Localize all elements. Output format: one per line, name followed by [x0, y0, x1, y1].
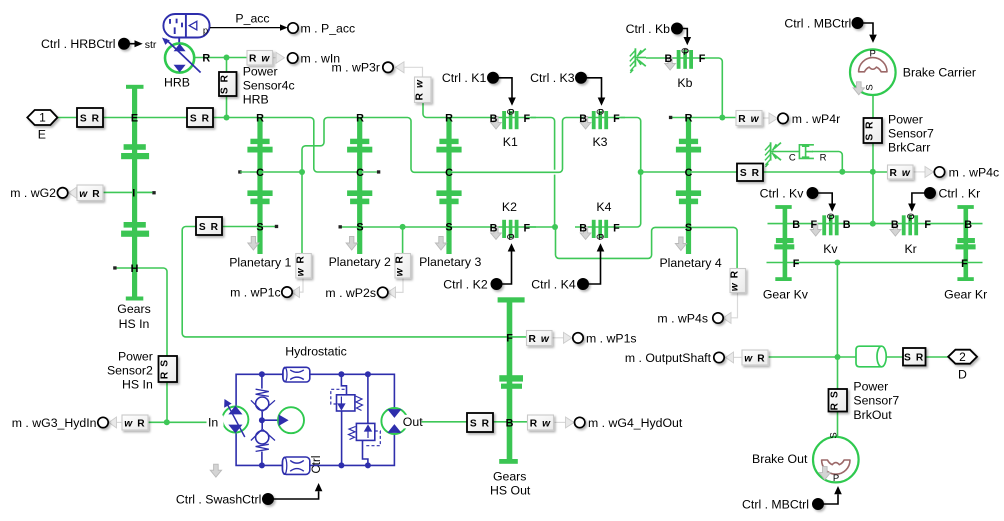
wire Planetary1 C to node — [250, 171, 302, 173]
svg-text:Kb: Kb — [677, 76, 692, 90]
ground Kb housing — [630, 48, 646, 73]
svg-text:Planetary 2: Planetary 2 — [329, 255, 391, 269]
sensor box w R m.wG3_HydIn — [122, 415, 148, 430]
measurement arrow m.wP4s — [723, 313, 731, 324]
wire S node around K4 to Planetary4 S — [556, 227, 687, 258]
shaft Gears HS Out — [498, 297, 525, 464]
wire wP2s drop — [402, 227, 404, 254]
svg-text:S R: S R — [865, 120, 876, 140]
hydrostatic pump Out — [381, 408, 407, 434]
port circle m.wP4s — [713, 313, 723, 323]
svg-text:Ctrl . K3: Ctrl . K3 — [530, 71, 575, 85]
clutch K2 — [502, 220, 518, 239]
svg-text:C: C — [445, 167, 453, 179]
svg-text:P_acc: P_acc — [235, 12, 269, 26]
svg-text:Planetary 3: Planetary 3 — [419, 255, 481, 269]
svg-text:BrkCarr: BrkCarr — [888, 140, 930, 154]
svg-text:R: R — [445, 113, 453, 125]
measurement line m.wG4_HydOut — [555, 421, 568, 423]
wire Planetary4 S right to wP4s sensor — [689, 227, 738, 269]
measurement line m.wG2 — [73, 192, 77, 194]
svg-text:Hydrostatic: Hydrostatic — [285, 345, 347, 359]
stub square Planetary2 S — [339, 225, 342, 228]
junction dot damper — [839, 169, 845, 175]
svg-text:R w: R w — [738, 114, 759, 125]
hydrostatic relief valve lower — [349, 374, 381, 465]
junction dot C1 — [299, 169, 305, 175]
junction dot Planetary4 R — [719, 115, 725, 121]
damper C R to ground — [789, 145, 827, 164]
measurement arrow m.wP1c — [292, 287, 300, 298]
svg-text:Sensor4c: Sensor4c — [243, 78, 295, 92]
svg-text:K4: K4 — [596, 200, 611, 214]
wire Gear Kv F line to Gear Kr — [767, 262, 983, 264]
svg-text:w R: w R — [79, 189, 100, 200]
svg-text:Kv: Kv — [823, 242, 838, 256]
wire node C1 up to Planetary2 R — [302, 118, 360, 173]
svg-text:m . wP1s: m . wP1s — [586, 331, 637, 345]
svg-text:E: E — [131, 113, 138, 125]
clutch K1 — [502, 109, 518, 129]
svg-text:Ctrl . Kv: Ctrl . Kv — [760, 186, 805, 200]
junction dot S node — [552, 224, 558, 230]
stub square Planetary2 C — [377, 170, 380, 173]
stub wires — [137, 172, 377, 192]
port circle m.P_acc — [288, 23, 298, 33]
control input Ctrl.K1 — [488, 73, 516, 106]
svg-text:w R: w R — [296, 255, 307, 276]
svg-text:In: In — [208, 416, 218, 430]
svg-text:m . wP1c: m . wP1c — [230, 285, 281, 299]
port circle m.wG2 — [57, 188, 67, 198]
sensor box w R m.wP2s vertical — [395, 254, 411, 279]
svg-text:R w: R w — [528, 334, 549, 345]
unconnected port arrow K2 B — [491, 227, 502, 240]
port circle m.wP2s — [378, 287, 388, 297]
wire F node down to output line — [836, 263, 838, 358]
clutch K3 — [592, 109, 608, 129]
wire K1 F down to S node (gap at C crossing) — [531, 118, 555, 228]
port circle m.wP1s — [573, 333, 583, 343]
svg-text:str: str — [145, 39, 157, 51]
sensor box R S HS In vertical — [159, 356, 178, 382]
wire output line inertia to sensor — [887, 356, 905, 358]
control input Ctrl.HRBCtrl — [119, 39, 143, 49]
shaft Planetary 4 — [676, 117, 701, 254]
svg-text:Power: Power — [853, 380, 888, 394]
svg-text:R S: R S — [160, 359, 171, 379]
wire Brake Carrier stem to B line — [872, 95, 874, 224]
measurement line m.wP4r — [763, 117, 770, 119]
sensor box S R engine line 2 — [187, 108, 213, 127]
sensor box R w m.wP4c — [888, 165, 914, 179]
brake Brake Out — [813, 437, 859, 483]
svg-text:F: F — [793, 258, 800, 270]
measurement arrow m.OutputShaft — [726, 352, 734, 363]
svg-text:Sensor7: Sensor7 — [888, 126, 934, 140]
svg-text:S R: S R — [470, 418, 490, 429]
unconnected port arrow Planetary4 — [675, 237, 686, 251]
svg-text:R S: R S — [830, 390, 841, 410]
measurement line m.wP4c — [914, 171, 929, 173]
svg-text:B: B — [579, 113, 587, 125]
svg-text:C: C — [789, 153, 796, 164]
hydrostatic outer loop piping — [236, 374, 394, 465]
svg-text:HS Out: HS Out — [490, 483, 531, 497]
svg-text:R w: R w — [889, 168, 910, 179]
stub square I — [152, 191, 155, 194]
svg-text:Out: Out — [403, 415, 423, 429]
svg-text:Gears: Gears — [493, 469, 527, 483]
svg-text:HRB: HRB — [164, 75, 190, 89]
junction dot wG3 line — [164, 419, 170, 425]
measurement line m.wP2s — [394, 278, 403, 292]
svg-text:R: R — [685, 113, 693, 125]
svg-text:m . wP3r: m . wP3r — [331, 61, 380, 75]
clutch K4 — [592, 220, 608, 239]
sensor box R w m.wIn — [247, 51, 273, 66]
svg-text:R w: R w — [530, 419, 551, 430]
accumulator HRB — [163, 14, 209, 44]
port circle m.OutputShaft — [714, 352, 724, 362]
svg-text:S: S — [685, 222, 692, 234]
svg-text:C: C — [256, 167, 264, 179]
hydrostatic hose bottom — [282, 457, 310, 474]
svg-text:B: B — [506, 418, 514, 430]
svg-text:F: F — [924, 219, 931, 231]
wire damper to ground line — [776, 152, 842, 173]
svg-text:B: B — [490, 113, 498, 125]
svg-text:m . OutputShaft: m . OutputShaft — [625, 351, 712, 365]
svg-text:m . wP4r: m . wP4r — [792, 112, 841, 126]
svg-text:Ctrl . K4: Ctrl . K4 — [531, 277, 576, 291]
pin label Hydrostatic Out — [403, 415, 424, 429]
wire wP4c line — [762, 171, 888, 173]
wire output node down to Brake Out — [837, 357, 839, 437]
brake Brake Carrier — [850, 49, 896, 95]
control input Ctrl.MBCtrl top — [852, 18, 877, 43]
unconnected port arrow Hydrostatic — [210, 464, 221, 477]
svg-text:Sensor7: Sensor7 — [853, 394, 899, 408]
control input Ctrl.K3 — [576, 73, 606, 106]
svg-text:C: C — [356, 167, 364, 179]
wire Gear Kv B line to Gear Kr — [768, 223, 983, 225]
hydrostatic check valve upper — [251, 374, 275, 420]
svg-text:S R: S R — [190, 113, 210, 124]
sensor box R w m.wG4_HydOut — [528, 415, 554, 430]
svg-text:E: E — [38, 128, 46, 142]
unconnected port arrow Planetary2 — [346, 237, 357, 251]
svg-text:F: F — [810, 219, 817, 231]
svg-text:P: P — [829, 213, 835, 223]
port circle m.wIn — [288, 53, 298, 63]
svg-text:H: H — [131, 263, 139, 275]
clutch Kr — [902, 214, 918, 235]
control input Ctrl.MBCtrl bottom — [813, 486, 842, 509]
svg-text:S R: S R — [199, 222, 219, 233]
svg-text:S: S — [256, 222, 263, 234]
sensor box S R HydOut — [467, 413, 493, 432]
sensor box S R output — [903, 348, 926, 366]
svg-text:Gears: Gears — [117, 302, 151, 316]
svg-text:R: R — [820, 153, 827, 164]
svg-text:w R: w R — [395, 255, 406, 276]
stub square H — [113, 266, 116, 269]
unconnected port arrow Planetary3 — [435, 237, 446, 251]
svg-text:Gear Kr: Gear Kr — [944, 287, 987, 301]
svg-text:S: S — [356, 222, 363, 234]
hydrostatic motor middle — [262, 407, 304, 433]
wire K2 F to S node — [529, 226, 556, 228]
sensor box w R m.wP1c vertical — [296, 254, 312, 279]
svg-text:B: B — [891, 219, 899, 231]
wire S R sensor to Planetary1 S stub — [222, 226, 276, 228]
svg-text:Ctrl . K2: Ctrl . K2 — [443, 277, 488, 291]
unconnected port arrow K1 B — [491, 117, 502, 130]
wire HRB R line — [195, 57, 251, 59]
junction dot output line — [835, 354, 841, 360]
svg-text:S R: S R — [904, 353, 924, 364]
svg-text:w R: w R — [730, 270, 741, 291]
svg-text:S: S — [829, 432, 840, 438]
shaft Planetary 2 — [347, 117, 372, 254]
svg-text:Ctrl . Kb: Ctrl . Kb — [626, 22, 671, 36]
svg-text:HRB: HRB — [243, 92, 269, 106]
svg-text:Ctrl . K1: Ctrl . K1 — [442, 71, 487, 85]
svg-text:K3: K3 — [592, 135, 607, 149]
svg-text:P: P — [598, 232, 604, 242]
svg-text:BrkOut: BrkOut — [853, 408, 892, 422]
measurement line m.wP4s — [730, 292, 738, 317]
measurement arrow m.wP4r — [769, 113, 778, 124]
svg-text:F: F — [523, 222, 530, 234]
svg-text:Brake Carrier: Brake Carrier — [903, 66, 976, 80]
shaft Planetary 3 — [436, 117, 461, 254]
control input Ctrl.Kb — [672, 23, 691, 45]
svg-text:S R: S R — [80, 113, 100, 124]
svg-text:B: B — [792, 219, 800, 231]
unconnected port arrow K4 B — [580, 227, 591, 240]
junction dot E line — [224, 115, 230, 121]
svg-text:Ctrl . MBCtrl: Ctrl . MBCtrl — [784, 16, 851, 30]
svg-text:m . wP2s: m . wP2s — [325, 286, 376, 300]
svg-text:B: B — [579, 222, 587, 234]
wire output line left — [767, 356, 856, 358]
svg-text:F: F — [506, 333, 513, 345]
measurement arrow m.wG4_HydOut — [566, 417, 575, 428]
sensor box R S BrkOut vertical — [829, 389, 848, 412]
measurement line m.wP1s — [553, 337, 566, 339]
svg-text:m . wG2: m . wG2 — [10, 186, 56, 200]
svg-text:Ctrl . SwashCtrl: Ctrl . SwashCtrl — [176, 492, 261, 506]
svg-text:B: B — [843, 219, 851, 231]
wire wP3r sensor drop and R line to K1 B — [423, 103, 536, 118]
shaft Gears HS In — [132, 85, 137, 300]
wire node C1 down to wP1c sensor — [301, 172, 303, 254]
wire Planetary3 C to K3 B — [449, 118, 625, 173]
svg-text:w R: w R — [124, 419, 145, 430]
shaft Planetary 1 — [247, 117, 272, 254]
svg-text:S: S — [445, 222, 452, 234]
svg-text:B: B — [664, 53, 672, 65]
shaft Gear Kv — [774, 205, 794, 281]
svg-text:Ctrl . Kr: Ctrl . Kr — [939, 186, 981, 200]
svg-text:Planetary 1: Planetary 1 — [229, 256, 291, 270]
svg-text:HS In: HS In — [122, 378, 153, 392]
unconnected port arrow Kb B — [665, 58, 676, 71]
svg-text:F: F — [961, 258, 968, 270]
inertia output shaft — [856, 346, 886, 367]
measurement arrow m.wP4c — [925, 167, 934, 178]
port 2 D hexagon — [948, 350, 977, 364]
svg-text:P: P — [909, 213, 915, 223]
unconnected port arrow Planetary1 — [248, 237, 259, 251]
control input Ctrl.Kr — [908, 188, 935, 212]
sensor box R w m.wP3r vertical — [415, 77, 432, 103]
svg-text:K2: K2 — [502, 200, 517, 214]
svg-text:m . wP4s: m . wP4s — [657, 311, 708, 325]
wire Hydrostatic Out line to wG4 HydOut — [407, 421, 528, 423]
junction dot B line — [870, 221, 876, 227]
shaft Gear Kr — [956, 205, 976, 281]
unconnected port arrow K3 B — [580, 117, 591, 130]
hydrostatic junction dots — [259, 371, 371, 468]
wire output sensor to port D — [924, 356, 949, 358]
sensor box w R m.OutputShaft — [742, 350, 768, 365]
svg-text:C: C — [685, 167, 693, 179]
sensor box R w m.wP4r — [736, 111, 762, 126]
measurement line m.wG3_HydIn — [115, 421, 122, 423]
wire engine E line to Planetary2 C — [58, 118, 361, 173]
svg-text:R: R — [202, 53, 210, 65]
stub square Planetary1 C — [238, 170, 241, 173]
svg-text:Power: Power — [118, 349, 153, 363]
svg-text:P: P — [683, 47, 689, 57]
svg-text:S R: S R — [740, 168, 760, 179]
svg-text:F: F — [613, 113, 620, 125]
sensor box S R BrkCarr vertical — [864, 118, 883, 143]
measurement arrow m.wG3_HydIn — [109, 417, 117, 428]
sensor box w R m.wG2 — [77, 185, 103, 201]
measurement line m.wP1c — [299, 278, 303, 292]
port circle m.wP1c — [282, 287, 292, 297]
junction dot wP2s — [400, 224, 406, 230]
pump HRB variable displacement — [162, 38, 201, 73]
svg-text:R w: R w — [415, 79, 426, 100]
measurement arrow m.wIn — [276, 52, 285, 63]
svg-text:S R: S R — [220, 74, 231, 94]
svg-text:m . P_acc: m . P_acc — [301, 21, 356, 35]
hydrostatic relief valve upper — [331, 374, 363, 465]
svg-text:S: S — [865, 84, 876, 90]
svg-text:m . wG3_HydIn: m . wG3_HydIn — [12, 416, 97, 430]
svg-text:1: 1 — [39, 111, 46, 125]
clutch Kb — [677, 48, 693, 68]
measurement arrow m.wP3r — [396, 62, 405, 73]
port circle m.wG3_HydIn — [98, 417, 108, 427]
wire H line down to wG3 line — [116, 268, 167, 422]
port circle m.wP4c — [934, 167, 944, 177]
hydrostatic hose top — [283, 367, 310, 382]
measurement line m.wP3r — [404, 67, 423, 77]
wire wG3 HydIn line to Hydrostatic In — [147, 421, 223, 423]
svg-text:I: I — [132, 188, 135, 200]
port circle m.wP3r — [383, 62, 393, 72]
clutch Kv — [822, 214, 838, 235]
svg-text:Ctrl . HRBCtrl: Ctrl . HRBCtrl — [41, 37, 115, 51]
svg-text:R w: R w — [249, 54, 270, 65]
control input Ctrl.K2 — [491, 243, 515, 289]
signal line P_acc — [210, 24, 288, 30]
wire wG2 line to I stub — [102, 191, 153, 193]
measurement arrow m.wP1s — [564, 332, 573, 343]
measurement arrow m.wG2 — [69, 187, 77, 198]
svg-text:2: 2 — [959, 350, 966, 364]
wire K3 F to K4 F — [575, 118, 641, 228]
wire Planetary4 R line to wP4r sensor — [672, 117, 737, 119]
measurement line m.wIn — [273, 57, 277, 59]
wire Planetary1 S sensor down and across to Gears HS Out F — [182, 227, 527, 337]
svg-text:Brake Out: Brake Out — [752, 452, 808, 466]
svg-text:K1: K1 — [503, 135, 518, 149]
hydrostatic check valve lower — [251, 420, 275, 465]
port circle m.wG4_HydOut — [575, 417, 585, 427]
svg-text:w R: w R — [744, 354, 765, 365]
sensor box S R Planetary4 C — [737, 164, 763, 182]
control input Ctrl.K4 — [578, 243, 605, 289]
svg-text:Gear Kv: Gear Kv — [763, 287, 809, 301]
sensor box S R Planetary1 S — [196, 217, 222, 235]
svg-text:R: R — [256, 113, 264, 125]
port circle m.wP4r — [778, 113, 788, 123]
stub square Planetary1 S — [275, 225, 278, 228]
svg-text:D: D — [958, 368, 967, 382]
wire Kb line and drop to Planetary4 R — [646, 58, 722, 118]
sensor box R w m.wP1s — [527, 331, 553, 346]
control input Ctrl.Kv — [807, 188, 836, 212]
svg-text:Kr: Kr — [904, 242, 916, 256]
unconnected port arrow Kr B — [890, 224, 901, 237]
svg-text:B: B — [490, 222, 498, 234]
svg-text:m . wP4c: m . wP4c — [949, 165, 1000, 179]
junction dot F line — [834, 260, 840, 266]
unconnected port arrow Brake Carrier — [853, 82, 864, 95]
svg-text:B: B — [964, 219, 972, 231]
hydrostatic pump In variable displacement — [222, 400, 248, 437]
port 1 E hexagon — [27, 110, 57, 125]
ground damper housing — [765, 142, 781, 167]
junction dot C line K3F vertical — [638, 169, 644, 175]
wire HRB drop to E line — [226, 58, 228, 118]
svg-text:Ctrl: Ctrl — [311, 456, 323, 474]
sensor box S R on engine line — [77, 108, 103, 127]
unconnected port arrow Brake Out — [819, 467, 830, 480]
sensor box w R m.wP4s vertical — [730, 269, 746, 293]
svg-text:Power: Power — [888, 112, 923, 126]
svg-text:F: F — [699, 53, 706, 65]
measurement line m.OutputShaft — [732, 356, 742, 358]
svg-text:p: p — [203, 26, 208, 37]
wire C line node to Planetary4 C and sensor box — [641, 171, 738, 173]
svg-text:HS In: HS In — [119, 317, 150, 331]
svg-text:Power: Power — [243, 64, 278, 78]
control input Ctrl.SwashCtrl — [263, 483, 323, 504]
svg-text:F: F — [523, 113, 530, 125]
unconnected port arrow Kv F — [810, 224, 821, 237]
junction dot wP4c sensor vertical — [870, 169, 876, 175]
wire Planetary2 R to Planetary3 C — [360, 118, 449, 173]
wire S line Planetary2 Planetary3 to K2 B — [341, 226, 536, 228]
